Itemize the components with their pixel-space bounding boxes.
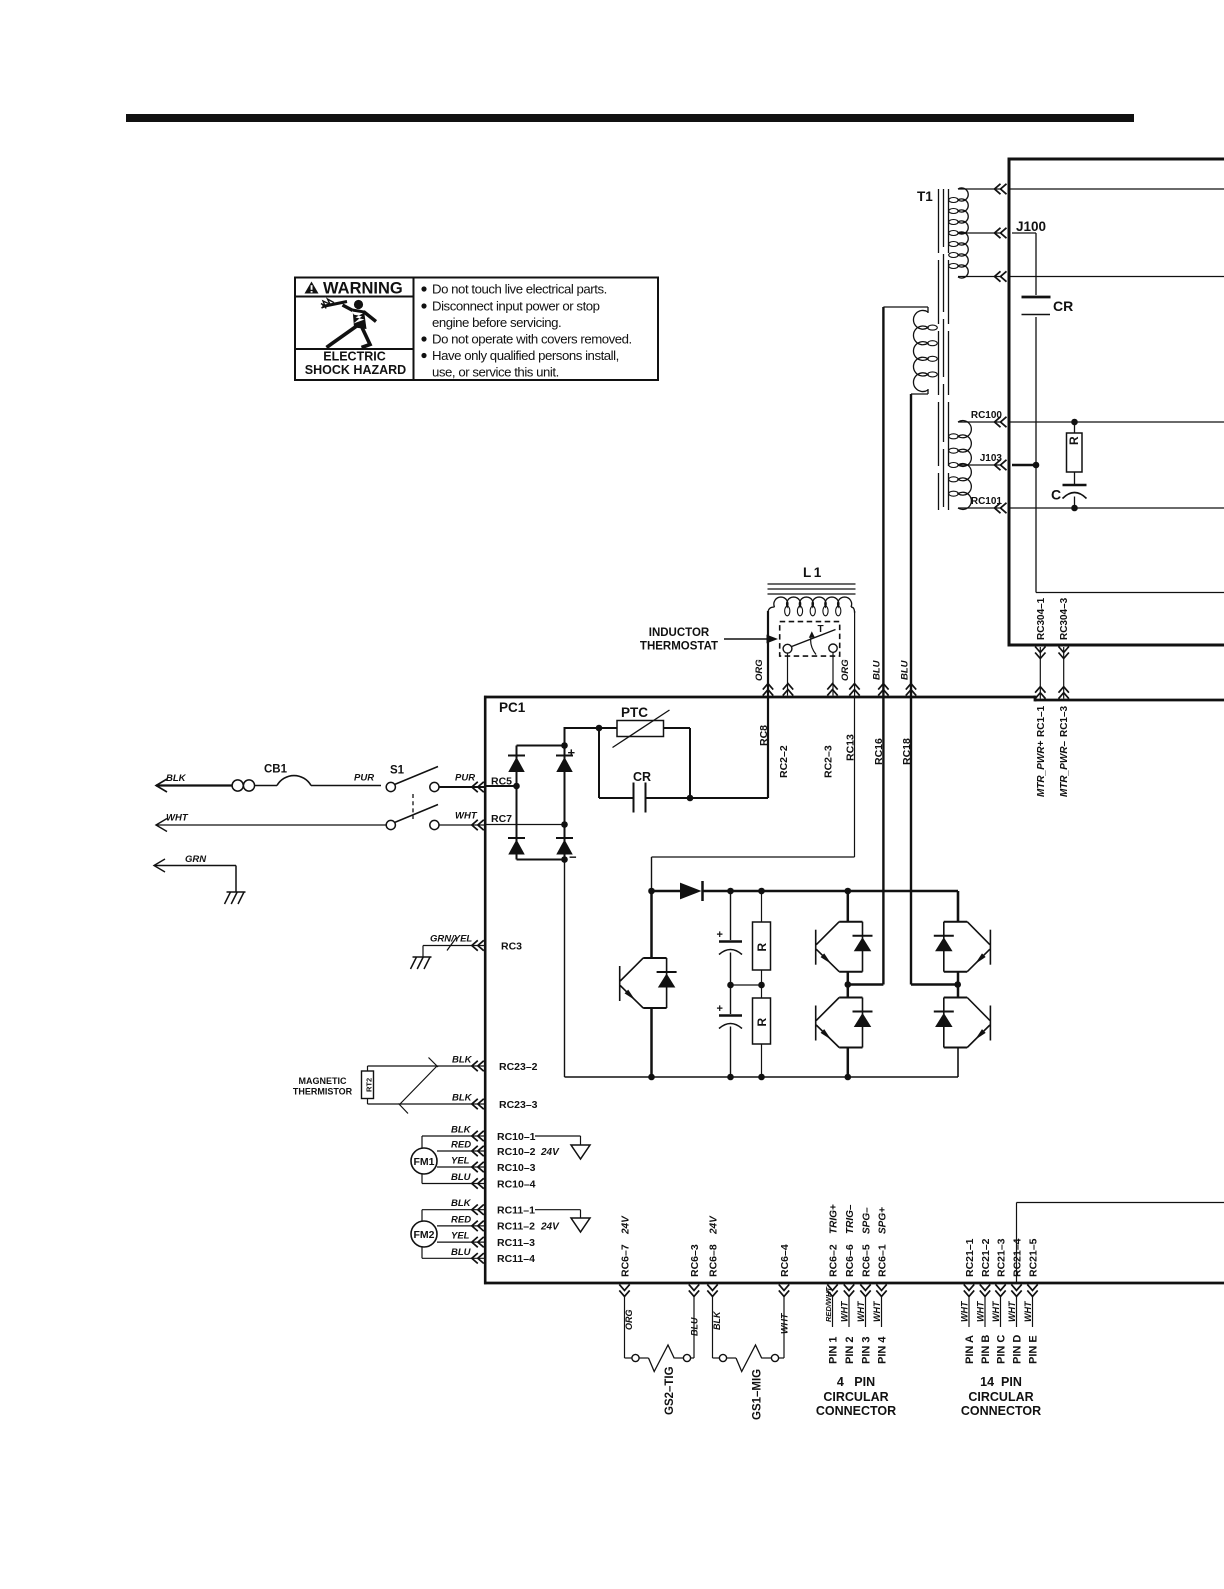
svg-text:PIN B: PIN B	[980, 1335, 992, 1364]
connector chevron RC3	[478, 940, 484, 950]
warning box frame	[295, 278, 658, 381]
bridge right column	[564, 746, 566, 860]
svg-text:WHT: WHT	[166, 813, 189, 824]
svg-text:WHT: WHT	[780, 1312, 790, 1334]
svg-text:4 PIN: 4 PIN	[837, 1375, 875, 1389]
connector chevron RC6-5	[860, 1284, 870, 1290]
wire J100 branch	[1012, 232, 1036, 234]
wire C1 bottom lead	[730, 953, 732, 986]
svg-text:ORG: ORG	[840, 659, 851, 681]
wire RC11-3	[437, 1241, 484, 1243]
wire PIN D 14pin	[1016, 1295, 1018, 1327]
svg-text:RC6–7: RC6–7	[619, 1244, 631, 1277]
wire RT2 top	[367, 1066, 369, 1071]
wire mid tie	[731, 984, 762, 986]
node minus-C2	[727, 1074, 734, 1081]
svg-text:BLU: BLU	[451, 1247, 472, 1258]
node PTC-CR right	[687, 795, 694, 802]
svg-text:WARNING: WARNING	[323, 280, 403, 298]
svg-text:J103: J103	[980, 453, 1003, 464]
connector chevron RC23-3	[478, 1099, 484, 1109]
svg-text:RC10–1: RC10–1	[497, 1131, 536, 1143]
wire RC16 inner	[882, 697, 884, 985]
diode bridge D2	[556, 755, 573, 757]
tick RT2 bottom	[399, 1104, 409, 1114]
bridge bottom rail	[517, 859, 565, 861]
switch GS1-MIG	[719, 1354, 726, 1361]
connector chevron RC8	[763, 690, 773, 696]
wire PTC feed	[599, 727, 617, 729]
connector chevron RC11-4	[478, 1253, 484, 1263]
svg-text:GRN: GRN	[185, 854, 207, 865]
svg-text:WHT: WHT	[856, 1300, 866, 1322]
wire RC8 inner	[767, 698, 769, 798]
svg-text:BLU: BLU	[451, 1172, 472, 1183]
connector chevron RC10-3	[478, 1162, 484, 1172]
svg-text:MTR_PWR+: MTR_PWR+	[1036, 740, 1047, 797]
wire RC304-3/RC1-3	[1063, 647, 1065, 699]
svg-text:CB1: CB1	[264, 764, 288, 776]
svg-text:PIN C: PIN C	[996, 1335, 1008, 1364]
warning box divider h1	[295, 296, 414, 298]
svg-text:YEL: YEL	[451, 1231, 470, 1242]
switch S1 link	[412, 794, 414, 819]
svg-text:CR: CR	[633, 770, 651, 784]
svg-text:RED/WHT: RED/WHT	[824, 1286, 833, 1322]
svg-text:BLK: BLK	[451, 1125, 472, 1136]
inductor L1 winding	[774, 597, 852, 607]
wire L1 right lead RC13	[854, 611, 856, 697]
transformer T1 secondary winding	[913, 310, 928, 391]
svg-text:THERMISTOR: THERMISTOR	[293, 1087, 353, 1097]
switch GS2-TIG	[632, 1354, 639, 1361]
wire RC21-4 riser	[1016, 1203, 1018, 1284]
inductor L1 core lines	[768, 583, 856, 585]
wire GS1 left	[712, 1295, 714, 1358]
wire PIN 4 4pin	[881, 1295, 883, 1327]
svg-text:Do not touch live electrical p: Do not touch live electrical parts.	[432, 282, 607, 297]
thermostat dashed box	[780, 622, 840, 657]
svg-text:RC6–5: RC6–5	[860, 1244, 872, 1277]
transformer T1 core	[938, 189, 940, 510]
svg-text:R: R	[1067, 436, 1081, 445]
svg-text:RC11–3: RC11–3	[497, 1237, 535, 1249]
svg-text:BLU: BLU	[872, 659, 883, 680]
svg-text:RC304–1: RC304–1	[1036, 597, 1047, 640]
connector chevron RC6-4	[779, 1284, 789, 1290]
wire primary top lead	[958, 188, 1002, 190]
svg-text:RC11–1: RC11–1	[497, 1205, 535, 1217]
thermistor RT2 box	[362, 1071, 374, 1099]
connector chevron RC11-1	[478, 1205, 484, 1215]
connector chevron RC16	[878, 690, 888, 696]
capacitor C1 curved plate	[719, 950, 742, 955]
connector chevron RC21-5	[1027, 1284, 1037, 1290]
wire CB1 to S1	[311, 785, 381, 787]
wire secondary top lead	[927, 307, 929, 313]
thermostat actuator arc	[811, 635, 816, 655]
svg-text:CONNECTOR: CONNECTOR	[961, 1404, 1041, 1418]
switch S1 pole1	[386, 782, 395, 791]
wire RC11-2	[437, 1225, 484, 1227]
svg-text:RC6–2: RC6–2	[827, 1244, 839, 1277]
svg-text:GS2–TIG: GS2–TIG	[664, 1366, 676, 1415]
svg-text:ORG: ORG	[624, 1309, 634, 1330]
warning box divider vertical	[413, 278, 415, 381]
svg-text:BLK: BLK	[166, 773, 187, 784]
node mid-C	[727, 982, 734, 989]
connector chevron RC10-1	[478, 1131, 484, 1141]
wire RC2-2	[787, 653, 789, 695]
svg-text:RC2–2: RC2–2	[778, 745, 790, 778]
wire top-right bus	[1008, 158, 1224, 161]
wire RC10-4	[422, 1183, 484, 1185]
connector chevron RC5	[478, 782, 484, 792]
connector chevron RC304-1	[1035, 647, 1045, 653]
svg-text:THERMOSTAT: THERMOSTAT	[640, 641, 718, 653]
svg-text:T1: T1	[917, 189, 933, 204]
connector chevron RC7	[478, 820, 484, 830]
svg-text:SHOCK HAZARD: SHOCK HAZARD	[305, 363, 406, 377]
svg-text:SPG+: SPG+	[877, 1207, 888, 1234]
svg-text:Have only qualified persons in: Have only qualified persons install,	[432, 348, 619, 363]
svg-text:WHT: WHT	[960, 1300, 970, 1322]
wire RC16 upper	[882, 307, 884, 697]
node RC5	[513, 783, 520, 790]
PC1 left edge	[484, 696, 487, 1284]
wire PIN 3 4pin	[865, 1295, 867, 1327]
svg-text:Disconnect input power or stop: Disconnect input power or stop	[432, 299, 600, 314]
connector chevron RC6-8	[707, 1284, 717, 1290]
wire mid-right bus	[1008, 644, 1224, 647]
svg-text:BLK: BLK	[712, 1310, 722, 1330]
svg-text:T: T	[818, 624, 824, 635]
connector chevron RC6-6	[844, 1284, 854, 1290]
node rail-C1	[727, 888, 734, 895]
wire RC304-1/RC1-1	[1039, 647, 1041, 699]
fan FM2	[421, 1210, 423, 1259]
svg-text:TRIG–: TRIG–	[845, 1204, 856, 1234]
svg-text:RC6–4: RC6–4	[779, 1244, 791, 1277]
wire BLK input	[156, 784, 232, 786]
switch S1 pole2	[386, 820, 395, 829]
svg-text:BLU: BLU	[900, 659, 911, 680]
svg-text:engine before servicing.: engine before servicing.	[432, 315, 561, 330]
svg-text:RC23–2: RC23–2	[499, 1061, 538, 1073]
wire DC- rail	[564, 860, 566, 1078]
wire C2 bottom lead	[730, 1027, 732, 1078]
wire RT2 bottom	[367, 1099, 369, 1105]
wire GS1 right	[779, 1357, 784, 1359]
svg-text:S1: S1	[390, 765, 405, 777]
svg-text:RED: RED	[451, 1140, 471, 1151]
node rail-Q2	[845, 888, 852, 895]
ground GRN/YEL	[413, 956, 432, 958]
node mid-right-leg	[954, 981, 961, 988]
transistor Q3 collector	[847, 985, 850, 998]
wire J103 lead	[958, 464, 1002, 466]
capacitor C2 plate	[719, 1014, 742, 1016]
svg-text:24V: 24V	[620, 1215, 631, 1235]
power 24V triangle FM1	[535, 1135, 581, 1137]
svg-text:RC10–3: RC10–3	[497, 1162, 536, 1174]
wire RT2 crossover	[400, 1066, 437, 1104]
wire RC2-3	[832, 653, 834, 696]
svg-text:24V: 24V	[708, 1215, 719, 1235]
node RC7	[561, 821, 568, 828]
resistor R2	[753, 998, 771, 1044]
connector chevron J103	[1001, 460, 1007, 470]
thermistor PTC diagonal	[613, 710, 670, 748]
connector chevron RC21-3	[995, 1284, 1005, 1290]
capacitor CR2 plates	[633, 783, 635, 813]
svg-text:R: R	[755, 1018, 769, 1027]
connector chevron primary-bottom	[1001, 271, 1007, 281]
wire primary-top to edge	[1009, 188, 1224, 190]
wire RC18 inner	[910, 697, 912, 985]
wire RC10-2	[437, 1150, 484, 1152]
thermostat contact left	[783, 644, 792, 653]
warning pictogram	[321, 299, 376, 348]
node R-RC100	[1071, 419, 1078, 426]
svg-text:ELECTRIC: ELECTRIC	[323, 350, 386, 364]
transistor Q1 (IGBT)	[643, 957, 666, 959]
transistor Q4 emitter	[957, 972, 960, 985]
wire GS2 right	[691, 1357, 694, 1359]
wire S1 to RC7	[439, 824, 484, 826]
connector chevron RC10-4	[478, 1178, 484, 1188]
svg-text:PIN 4: PIN 4	[877, 1336, 889, 1364]
svg-text:CR: CR	[1053, 298, 1073, 314]
svg-text:RC6–8: RC6–8	[707, 1244, 719, 1277]
svg-text:FM1: FM1	[414, 1156, 435, 1168]
wire C1 top lead	[730, 891, 732, 940]
tick RT2 top	[429, 1058, 439, 1068]
connector chevron RC18	[906, 690, 916, 696]
svg-text:WHT: WHT	[840, 1300, 850, 1322]
resistor R1	[753, 922, 771, 970]
svg-text:WHT: WHT	[455, 811, 478, 822]
wire L1 left lead RC8	[767, 611, 769, 697]
svg-text:CIRCULAR: CIRCULAR	[823, 1390, 888, 1404]
svg-text:PIN 1: PIN 1	[828, 1336, 840, 1364]
wire CR to J103	[1035, 317, 1037, 465]
wire RC18 upper	[910, 394, 912, 697]
svg-text:PIN E: PIN E	[1028, 1335, 1040, 1364]
bridge top rail	[517, 745, 565, 747]
svg-text:+: +	[717, 929, 723, 941]
capacitor C top plate	[1063, 484, 1087, 487]
svg-text:BLK: BLK	[451, 1198, 472, 1209]
svg-text:WHT: WHT	[991, 1300, 1001, 1322]
node minus-Q1	[648, 1074, 655, 1081]
svg-text:PIN 3: PIN 3	[861, 1336, 873, 1364]
svg-text:RC23–3: RC23–3	[499, 1099, 538, 1111]
PC1 bottom edge	[484, 1282, 1224, 1285]
wire PIN C 14pin	[1000, 1295, 1002, 1327]
wire C bottom lead	[1074, 497, 1076, 509]
svg-text:WHT: WHT	[872, 1300, 882, 1322]
resistor R (snubber)	[1067, 433, 1083, 472]
connector chevron RC1-3	[1059, 693, 1069, 699]
bridge left column	[516, 746, 518, 860]
node J100 tap lead	[958, 232, 1002, 234]
svg-text:RC6–3: RC6–3	[689, 1244, 701, 1277]
svg-text:Do not operate with covers rem: Do not operate with covers removed.	[432, 332, 632, 347]
wire RC7 to bridge	[484, 824, 565, 826]
svg-text:PC1: PC1	[499, 700, 526, 715]
node C-RC101	[1071, 505, 1078, 512]
connector chevron primary-top	[1001, 184, 1007, 194]
svg-text:CONNECTOR: CONNECTOR	[816, 1404, 896, 1418]
connector chevron RC6-3	[689, 1284, 699, 1290]
transistor Q2 emitter	[847, 972, 850, 985]
wire S1 to RC5	[439, 786, 484, 788]
transistor Q1 emitter	[650, 1008, 653, 1077]
wire R to C	[1074, 472, 1076, 485]
svg-text:PIN D: PIN D	[1012, 1335, 1024, 1364]
transistor Q5 collector	[957, 985, 960, 998]
node minus-Q3	[845, 1074, 852, 1081]
svg-text:RC21–2: RC21–2	[980, 1238, 992, 1277]
transistor Q5 (IGBT)	[944, 997, 967, 999]
svg-text:PTC: PTC	[621, 705, 648, 720]
svg-text:WHT: WHT	[1023, 1300, 1033, 1322]
transistor Q2 collector	[847, 891, 850, 922]
svg-text:RC7: RC7	[491, 813, 512, 825]
fan FM1	[421, 1136, 423, 1184]
wire PIN 2 4pin	[848, 1295, 850, 1327]
wire PIN E 14pin	[1032, 1295, 1034, 1327]
transistor Q2 (IGBT)	[839, 921, 862, 923]
svg-text:−: −	[569, 850, 577, 865]
svg-text:BLU: BLU	[690, 1317, 700, 1336]
svg-text:C: C	[1051, 487, 1061, 503]
wire GS2 left	[624, 1295, 626, 1358]
node rail-R1	[758, 888, 765, 895]
svg-text:RC10–2: RC10–2	[497, 1146, 536, 1158]
wire RC100 to edge	[1009, 421, 1224, 423]
transformer T1 primary winding	[958, 188, 968, 278]
connector chevron RC13	[849, 690, 859, 696]
wire bridge+ up	[564, 727, 566, 746]
connector chevron RC101	[1001, 503, 1007, 513]
connector chevron RC21-2	[980, 1284, 990, 1290]
svg-text:RC21–4: RC21–4	[1011, 1238, 1023, 1277]
transistor Q1 collector	[650, 891, 653, 958]
node minus-R2	[758, 1074, 765, 1081]
wire J103 down	[1035, 465, 1037, 593]
thermostat contact right	[829, 644, 837, 652]
svg-text:MAGNETIC: MAGNETIC	[299, 1076, 347, 1086]
svg-text:+: +	[568, 745, 576, 760]
svg-text:RC1–1: RC1–1	[1036, 705, 1047, 737]
wire GRN/YEL RC3	[423, 945, 484, 947]
node J103	[1033, 462, 1040, 469]
wire RC10-1	[422, 1135, 484, 1137]
wire RC100 lead	[958, 421, 1002, 423]
svg-text:FM2: FM2	[414, 1229, 435, 1241]
node PTC-CR left	[596, 725, 603, 732]
transistor Q3 (IGBT)	[839, 997, 862, 999]
connector chevron RC6-1	[876, 1284, 886, 1290]
svg-text:RC11–4: RC11–4	[497, 1253, 535, 1265]
wire RC13 inner	[854, 698, 856, 857]
svg-text:RC100: RC100	[971, 410, 1003, 421]
wire GRN input	[154, 865, 236, 867]
svg-text:RC10–4: RC10–4	[497, 1178, 536, 1190]
svg-text:RC21–5: RC21–5	[1027, 1238, 1039, 1277]
svg-text:TRIG+: TRIG+	[828, 1204, 839, 1234]
svg-text:14 PIN: 14 PIN	[980, 1375, 1022, 1389]
connector chevron RC100	[1001, 417, 1007, 427]
wire T1 main bus vertical	[1008, 158, 1011, 647]
thermostat blade	[792, 630, 836, 647]
svg-text:BLK: BLK	[452, 1055, 473, 1066]
svg-text:RC304–3: RC304–3	[1059, 597, 1070, 640]
wire RC101 lead	[958, 507, 1002, 509]
svg-text:J100: J100	[1016, 219, 1046, 234]
wire RC11-1	[422, 1209, 484, 1211]
svg-text:YEL: YEL	[451, 1156, 470, 1167]
transistor Q4 (IGBT)	[944, 921, 967, 923]
svg-text:WHT: WHT	[976, 1300, 986, 1322]
diode D output	[652, 890, 681, 893]
connector chevron RC6-7	[619, 1284, 629, 1290]
connector chevron RC23-2	[478, 1061, 484, 1071]
wire CR right	[646, 797, 769, 799]
capacitor C1 plate	[719, 940, 742, 942]
capacitor C curved plate	[1063, 493, 1087, 499]
wire primary-bottom to edge	[1009, 276, 1224, 278]
svg-text:BLK: BLK	[452, 1093, 473, 1104]
breaker CB1	[232, 780, 243, 791]
svg-text:24V: 24V	[540, 1222, 560, 1233]
capacitor CR bottom plate	[1022, 314, 1051, 316]
svg-text:CIRCULAR: CIRCULAR	[968, 1390, 1033, 1404]
wire RC11-4	[422, 1257, 484, 1259]
diode bridge D3	[508, 837, 525, 839]
thermistor PTC box	[617, 721, 664, 737]
thermostat pointer arrow	[724, 638, 767, 640]
svg-text:RC21–1: RC21–1	[964, 1238, 976, 1277]
svg-text:RC3: RC3	[501, 941, 522, 953]
wire R2 leads	[761, 985, 763, 998]
svg-text:+: +	[717, 1003, 723, 1015]
PC1 top edge	[484, 696, 1035, 699]
power 24V triangle FM2	[535, 1209, 581, 1211]
svg-text:RC11–2: RC11–2	[497, 1221, 535, 1233]
svg-text:ORG: ORG	[754, 659, 765, 681]
svg-text:PIN 2: PIN 2	[844, 1336, 856, 1364]
svg-text:PUR: PUR	[455, 773, 475, 784]
svg-text:24V: 24V	[540, 1147, 560, 1158]
svg-text:R: R	[755, 943, 769, 952]
title bar	[126, 114, 1134, 122]
transformer T1 tertiary winding	[958, 421, 971, 510]
connector chevron RC304-3	[1059, 647, 1069, 653]
connector chevron RC2-2	[783, 690, 793, 696]
svg-text:PUR: PUR	[354, 773, 374, 784]
wire PIN B 14pin	[984, 1295, 986, 1327]
svg-text:INDUCTOR: INDUCTOR	[649, 627, 710, 639]
svg-text:RC101: RC101	[971, 496, 1003, 507]
svg-text:WHT: WHT	[1007, 1300, 1017, 1322]
connector chevron J100	[1001, 228, 1007, 238]
connector chevron RC10-2	[478, 1146, 484, 1156]
svg-text:use, or service this unit.: use, or service this unit.	[432, 365, 559, 380]
wire PIN 1 4pin	[832, 1295, 834, 1327]
